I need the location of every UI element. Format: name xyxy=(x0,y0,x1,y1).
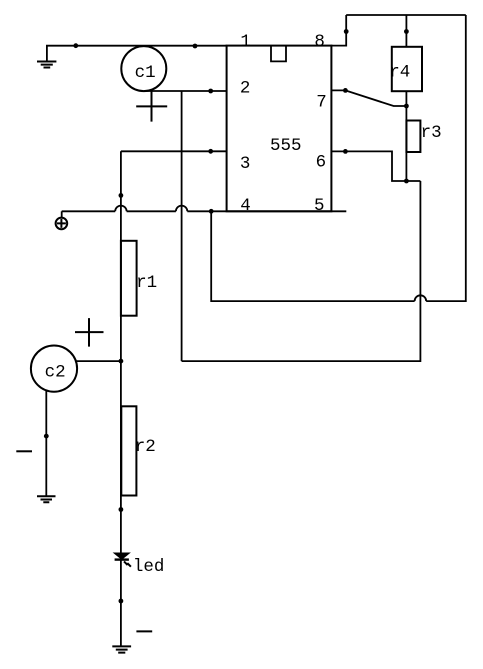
svg-text:6: 6 xyxy=(316,153,327,173)
svg-text:8: 8 xyxy=(314,32,325,52)
svg-text:c1: c1 xyxy=(135,63,156,83)
svg-text:r2: r2 xyxy=(135,437,156,457)
svg-text:r3: r3 xyxy=(421,123,442,143)
svg-text:5: 5 xyxy=(314,196,325,216)
svg-text:3: 3 xyxy=(240,154,251,174)
svg-text:r4: r4 xyxy=(389,62,410,82)
svg-text:c2: c2 xyxy=(45,363,66,383)
svg-text:2: 2 xyxy=(240,78,251,98)
svg-text:r1: r1 xyxy=(136,273,157,293)
svg-text:555: 555 xyxy=(270,136,302,156)
svg-text:7: 7 xyxy=(316,92,327,112)
svg-text:4: 4 xyxy=(240,196,251,216)
svg-text:led: led xyxy=(133,557,165,577)
svg-text:1: 1 xyxy=(240,32,251,52)
